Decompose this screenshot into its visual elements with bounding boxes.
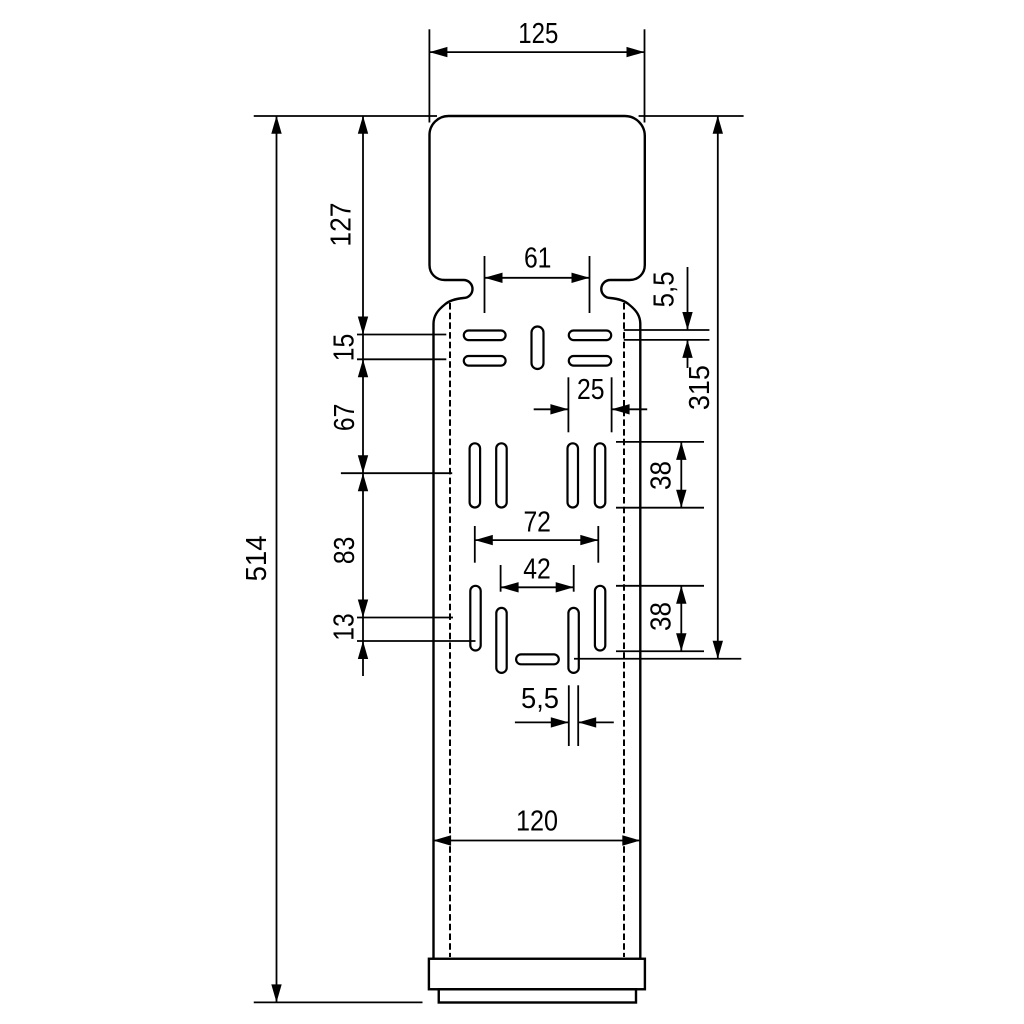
svg-text:120: 120 <box>516 805 558 837</box>
svg-text:127: 127 <box>325 203 357 247</box>
svg-text:38: 38 <box>645 602 677 631</box>
svg-text:25: 25 <box>577 374 605 406</box>
svg-text:514: 514 <box>241 535 273 581</box>
svg-text:42: 42 <box>523 554 551 586</box>
svg-text:15: 15 <box>329 334 361 362</box>
svg-text:72: 72 <box>523 506 551 538</box>
svg-text:5,5: 5,5 <box>648 271 680 307</box>
svg-text:83: 83 <box>329 537 361 565</box>
svg-text:315: 315 <box>684 365 716 410</box>
svg-text:38: 38 <box>645 461 677 490</box>
svg-text:125: 125 <box>518 18 558 50</box>
svg-text:5,5: 5,5 <box>521 683 559 715</box>
svg-text:61: 61 <box>524 242 552 274</box>
svg-text:67: 67 <box>329 404 361 432</box>
svg-text:13: 13 <box>329 613 361 641</box>
